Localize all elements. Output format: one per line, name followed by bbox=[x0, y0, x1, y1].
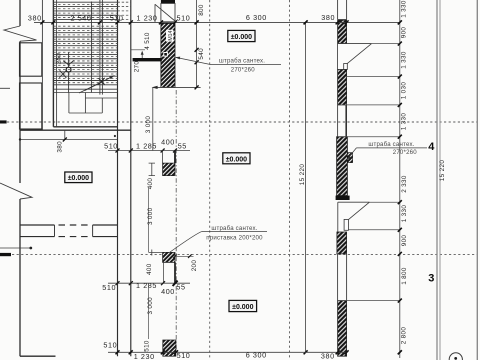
stair route line down from circle bbox=[68, 72, 70, 93]
extension lines to upper chase bbox=[162, 151, 164, 164]
chain y150 ticks bbox=[116, 149, 178, 153]
stair middle stringer double line bbox=[100, 0, 103, 95]
15220 center end ticks bbox=[304, 20, 308, 354]
bottom sanitary chase hatched bbox=[163, 340, 176, 356]
bottom dimension chain line bbox=[108, 351, 347, 353]
top center chimney solid black bbox=[161, 0, 175, 3]
stair left wall inner face bbox=[52, 0, 54, 127]
svg-text:1 030: 1 030 bbox=[401, 82, 408, 100]
right wall hatched segment 2 bbox=[338, 70, 347, 105]
chase label middle underline bbox=[202, 230, 267, 232]
vertical axis line A (dash-dot) bbox=[209, 0, 211, 358]
interior wall bottom edge dim line bbox=[153, 86, 201, 88]
interior partition wall lower line bbox=[20, 236, 118, 238]
landing second line bbox=[85, 97, 117, 99]
svg-text:510: 510 bbox=[177, 13, 191, 22]
lower chase thick drop line bbox=[174, 262, 176, 283]
elevation mark box top room bbox=[228, 30, 255, 41]
extension line y300.6 bbox=[338, 300, 400, 302]
chase label right underline bbox=[356, 147, 427, 149]
svg-text:15 220: 15 220 bbox=[439, 160, 446, 182]
svg-text:1 330: 1 330 bbox=[401, 0, 408, 18]
svg-text:штраба сантех.: штраба сантех. bbox=[368, 141, 414, 148]
svg-text:540: 540 bbox=[198, 48, 205, 60]
stair route arrowhead V bbox=[63, 60, 74, 64]
small white box in wall bbox=[163, 52, 168, 57]
svg-text:М14: М14 bbox=[168, 30, 174, 40]
landing inner bottom line bbox=[69, 112, 102, 114]
svg-text:55: 55 bbox=[178, 141, 187, 150]
svg-text:270*260: 270*260 bbox=[393, 149, 418, 156]
svg-text:900: 900 bbox=[401, 27, 408, 39]
elevation mark box center upper bbox=[223, 153, 250, 164]
landing vertical c bbox=[101, 98, 103, 113]
vertical axis line through chases (dash-dot) bbox=[175, 90, 177, 352]
top chain ticks bbox=[40, 20, 401, 24]
svg-text:800: 800 bbox=[198, 4, 205, 16]
svg-text:400: 400 bbox=[161, 138, 175, 147]
svg-text:900: 900 bbox=[401, 235, 408, 247]
extension line y43.6 bbox=[372, 43, 400, 45]
landing top line bbox=[53, 92, 117, 94]
right chain ticks bbox=[398, 20, 402, 354]
top center door jamb bbox=[154, 4, 156, 22]
svg-text:200: 200 bbox=[191, 260, 198, 272]
extension line y136.7 bbox=[338, 136, 400, 138]
stair direction long arrow bbox=[85, 76, 115, 91]
chase label top underline bbox=[211, 64, 281, 66]
top center door swing diagonal bbox=[155, 4, 175, 21]
axis 3 thick end dash bbox=[0, 253, 11, 256]
landing vertical a bbox=[68, 93, 70, 114]
dim line y139.5 below stair wall bbox=[20, 139, 118, 141]
svg-text:510: 510 bbox=[102, 283, 116, 292]
svg-text:270*260: 270*260 bbox=[231, 67, 256, 74]
door 2 header line bbox=[338, 201, 370, 203]
upper sanitary chase hatched bbox=[163, 163, 175, 176]
door 2 outer jamb line bbox=[337, 202, 339, 232]
short vertical 380 dim bbox=[64, 130, 66, 139]
bottom chain ticks bbox=[116, 350, 402, 354]
sheet frame outer edge bbox=[476, 0, 478, 360]
stair direction start circle bbox=[66, 67, 71, 72]
chase label middle leader bbox=[170, 231, 203, 252]
svg-text:±0.000: ±0.000 bbox=[226, 156, 247, 163]
stair left flight stringer bbox=[56, 0, 58, 127]
wall break symbol lower bbox=[0, 183, 32, 199]
200 dim ticks bbox=[173, 254, 191, 258]
svg-text:3 000: 3 000 bbox=[147, 297, 154, 315]
svg-text:4 510: 4 510 bbox=[144, 32, 151, 50]
lower chase drop lines bbox=[162, 262, 164, 283]
svg-text:2 330: 2 330 bbox=[401, 175, 408, 193]
door 1 outer jamb line bbox=[337, 44, 339, 70]
left shaft room lower bbox=[20, 83, 42, 129]
wall break symbol top bbox=[4, 26, 37, 41]
corridor wall left face (full height) bbox=[117, 0, 119, 356]
vertical dim line x152.8 bbox=[152, 87, 154, 150]
stair left wall outer face bbox=[41, 0, 43, 130]
dimension chain y150 line bbox=[108, 150, 190, 152]
short ledge line above black bar bbox=[131, 49, 145, 51]
extension line y104.9 bbox=[338, 104, 400, 106]
stair route line up bbox=[68, 53, 70, 68]
elevation mark box center lower bbox=[229, 300, 257, 311]
left outer wall upper segment bbox=[19, 0, 21, 26]
svg-text:штраба сантех.: штраба сантех. bbox=[219, 57, 265, 64]
stair route line right flight bbox=[90, 2, 92, 93]
lower sanitary chase hatched bbox=[163, 252, 175, 262]
svg-text:1 230: 1 230 bbox=[137, 13, 158, 22]
chain y283 ticks bbox=[116, 281, 178, 286]
svg-text:штраба сантех.: штраба сантех. bbox=[211, 225, 257, 232]
grid bubble bottom bbox=[449, 353, 462, 360]
right wall opening 3 jambs bbox=[338, 254, 347, 301]
stair direction second diagonal bbox=[79, 82, 103, 94]
door 1 header line bbox=[338, 43, 372, 45]
sheet frame second line bbox=[439, 0, 441, 360]
arrowhead up bbox=[141, 51, 144, 55]
svg-text:510: 510 bbox=[104, 141, 118, 150]
svg-text:2 540: 2 540 bbox=[71, 13, 92, 22]
svg-text:55: 55 bbox=[176, 282, 185, 291]
door 2 leaf bbox=[344, 219, 348, 230]
svg-text:6 300: 6 300 bbox=[246, 351, 267, 360]
svg-text:380: 380 bbox=[57, 141, 64, 153]
stairwell bottom wall outer line bbox=[20, 129, 131, 131]
lower chase left dim line bbox=[149, 250, 163, 256]
grid bubble center dot bbox=[454, 357, 457, 360]
extension line y202 bbox=[369, 201, 399, 203]
corridor wall right face (full height) bbox=[130, 0, 132, 356]
chase label top arrowhead bbox=[175, 57, 180, 60]
chain y283 big tick bbox=[173, 281, 178, 286]
interior partition wall upper line bbox=[20, 224, 118, 226]
svg-text:1 285: 1 285 bbox=[136, 142, 157, 151]
small vertical dim with arrow (270) bbox=[141, 52, 143, 58]
vertical dim line x196 bbox=[196, 0, 198, 87]
landing vertical b bbox=[84, 93, 86, 114]
svg-text:270: 270 bbox=[134, 61, 141, 73]
small dot near landing bbox=[114, 135, 116, 137]
door 2 swing diagonal bbox=[349, 202, 370, 219]
tick on 380 dim bbox=[63, 138, 67, 142]
lower chase 200 dim line bbox=[175, 255, 194, 257]
door 1 leaf bbox=[344, 64, 348, 70]
svg-text:510: 510 bbox=[144, 340, 151, 352]
svg-text:1 285: 1 285 bbox=[136, 281, 157, 290]
leader dot bbox=[29, 247, 32, 250]
sheet frame inner line bbox=[436, 0, 438, 360]
left outer wall middle segment bbox=[19, 41, 21, 183]
left outer wall lower segment bbox=[19, 199, 21, 356]
svg-text:6 300: 6 300 bbox=[246, 13, 267, 22]
interior wall hatched (top) bbox=[161, 23, 175, 87]
sanitary chase bump on wall bbox=[347, 153, 352, 163]
right dimension chain line bbox=[399, 0, 401, 358]
right wall opening 2 jambs bbox=[337, 105, 339, 137]
chase side dim marks bbox=[149, 163, 155, 176]
chase label right leader bbox=[348, 148, 357, 159]
svg-text:3: 3 bbox=[428, 273, 434, 285]
right wall hatched segment 3 bbox=[337, 137, 348, 196]
right wall hatched segment 5 bbox=[338, 301, 347, 357]
svg-text:±0.000: ±0.000 bbox=[231, 34, 252, 41]
dashed steps over top wall strip bbox=[118, 2, 131, 19]
top center door panel box bbox=[161, 3, 175, 21]
top dimension chain line bbox=[34, 21, 400, 23]
vertical axis line B (dash-dot) bbox=[289, 0, 291, 358]
stair route node cross bbox=[98, 78, 104, 85]
svg-text:1 230: 1 230 bbox=[134, 352, 155, 360]
stair route start cross bbox=[59, 70, 66, 78]
svg-text:510: 510 bbox=[103, 340, 117, 349]
svg-text:±0.000: ±0.000 bbox=[68, 175, 89, 182]
dimension chain y283 line bbox=[108, 282, 190, 284]
svg-text:380: 380 bbox=[28, 14, 42, 23]
svg-text:±0.000: ±0.000 bbox=[232, 304, 253, 311]
right wall hatched segment 1 bbox=[338, 20, 347, 43]
svg-text:380: 380 bbox=[321, 13, 335, 22]
thick right edge of chase drop bbox=[174, 151, 176, 164]
x196 ticks bbox=[195, 20, 199, 89]
extension line y76.6 bbox=[347, 76, 400, 78]
stair steps dashed (flight above) bbox=[53, 4, 117, 82]
svg-text:510: 510 bbox=[177, 351, 191, 360]
wall label knockout bbox=[166, 30, 173, 42]
svg-text:400: 400 bbox=[161, 287, 175, 296]
vertical dim line 3000 upper bbox=[148, 188, 150, 252]
grid axis 4 (horizontal dash line) bbox=[7, 121, 477, 123]
node dot at left of y139.5 bbox=[19, 138, 21, 140]
svg-text:4: 4 bbox=[428, 141, 435, 153]
right wall hatched segment 4 bbox=[337, 232, 347, 254]
leader line with dot at axis 3 bbox=[0, 247, 31, 249]
partition opening jambs bbox=[55, 225, 93, 237]
svg-text:1 330: 1 330 bbox=[401, 113, 408, 131]
elevation mark box left room bbox=[65, 172, 92, 183]
svg-text:2 800: 2 800 bbox=[401, 327, 408, 345]
thin partition shown solid black bbox=[133, 58, 162, 61]
stair long arrow head bbox=[109, 76, 114, 80]
small black box in wall bbox=[164, 53, 167, 56]
chase label right arrowhead bbox=[347, 156, 352, 160]
bottom outer wall bbox=[20, 355, 56, 357]
overall dim line 15220 center bbox=[305, 22, 307, 352]
left edge wall stub bbox=[0, 87, 10, 89]
chase label top leader bbox=[176, 57, 211, 64]
stair steps solid treads bbox=[53, 2, 117, 89]
extension line y229.8 bbox=[348, 229, 399, 231]
svg-text:3 000: 3 000 bbox=[147, 207, 154, 225]
vertical dim line 3000 lower bbox=[148, 283, 150, 339]
svg-text:400: 400 bbox=[147, 178, 154, 190]
svg-text:1 330: 1 330 bbox=[401, 205, 408, 223]
wall solid black band bbox=[336, 196, 350, 200]
left shaft room upper bbox=[20, 43, 42, 76]
svg-text:400: 400 bbox=[146, 263, 153, 275]
left arrow of bottom edge dim bbox=[152, 86, 158, 89]
door 1 swing diagonal bbox=[347, 44, 372, 64]
svg-text:приставка 200*200: приставка 200*200 bbox=[206, 235, 263, 242]
svg-text:1 800: 1 800 bbox=[401, 267, 408, 285]
grid axis 3 (horizontal dash line) bbox=[12, 254, 477, 256]
svg-text:380: 380 bbox=[321, 351, 335, 360]
svg-text:1 330: 1 330 bbox=[401, 51, 408, 69]
right wall opening jambs top bbox=[338, 0, 347, 20]
axis 4 thick end dash bbox=[0, 120, 7, 123]
svg-text:3 000: 3 000 bbox=[145, 116, 152, 134]
opening 2 right jamb thick bbox=[345, 105, 347, 137]
svg-text:15 220: 15 220 bbox=[299, 164, 306, 186]
stairwell bottom wall inner line bbox=[53, 126, 117, 128]
svg-text:510: 510 bbox=[110, 13, 124, 22]
